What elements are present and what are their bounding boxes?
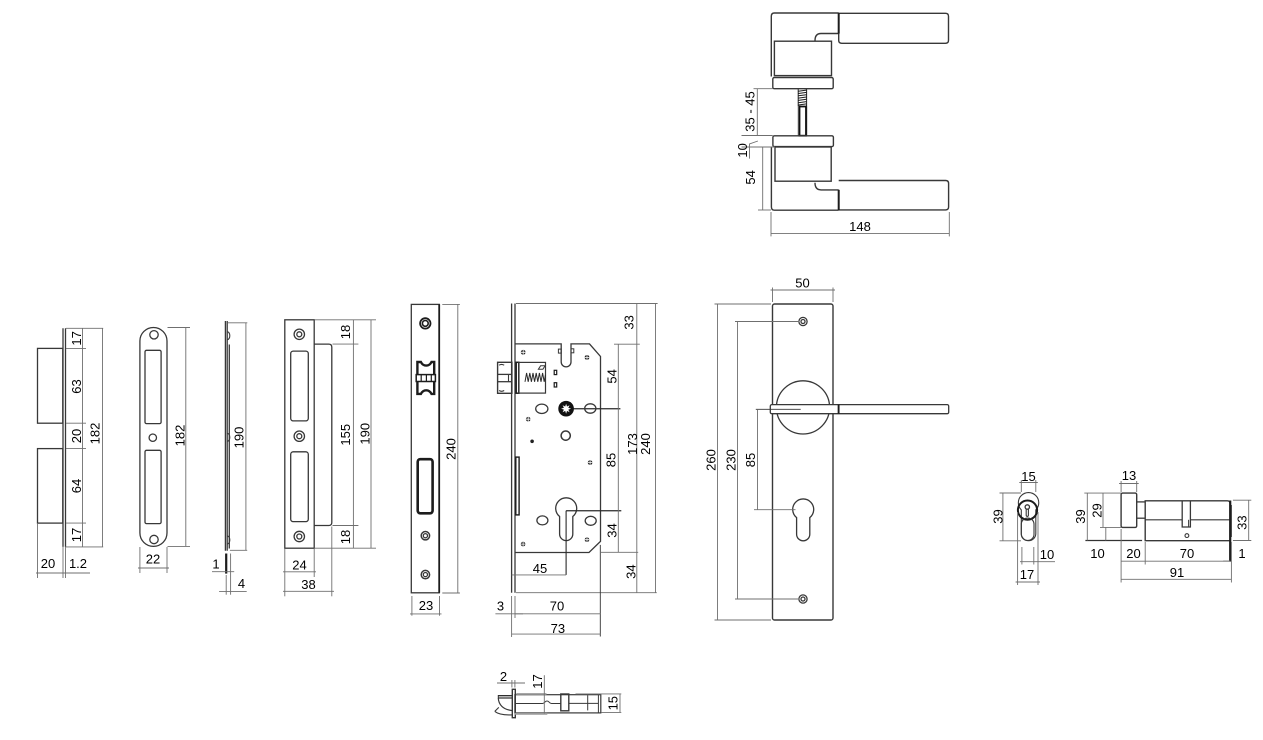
keyway slot: [1182, 501, 1190, 527]
svg-text:1: 1: [212, 557, 219, 572]
screw hole middle: [294, 431, 304, 441]
dim 22: [139, 547, 141, 573]
top rose plate: [773, 78, 833, 89]
bottom lever grip: [839, 181, 949, 210]
slot upper: [291, 351, 309, 421]
top rose square: [774, 41, 831, 75]
svg-text:10: 10: [1090, 546, 1104, 561]
spindle hint line: [756, 408, 801, 410]
svg-text:34: 34: [605, 523, 620, 537]
plug line: [1145, 519, 1182, 521]
cam tip: [1230, 505, 1232, 537]
svg-text:182: 182: [87, 423, 102, 445]
svg-text:230: 230: [724, 449, 739, 471]
dim 17: [1017, 512, 1019, 585]
PART8: handle pair side view: [735, 13, 949, 236]
bottom rose square: [775, 147, 831, 181]
svg-text:17: 17: [1020, 567, 1034, 582]
PART5: lock faceplate front: [410, 304, 460, 615]
dim 24: [284, 549, 286, 596]
svg-text:73: 73: [551, 621, 565, 636]
lock case outline with top notch and chamfers: [515, 344, 601, 553]
follower block: [561, 694, 569, 711]
notch nub left: [558, 349, 561, 353]
dim 50: [772, 288, 774, 303]
svg-text:45: 45: [533, 561, 547, 576]
svg-text:182: 182: [173, 425, 188, 447]
spindle rod: [797, 106, 799, 135]
dim 190: [228, 322, 248, 324]
dim line 54/85/34: [617, 344, 619, 552]
PART9: cylinder face view: [991, 469, 1056, 585]
screw hole bottom: [799, 595, 807, 603]
dim line 17/63/20/64/17: [82, 328, 84, 547]
latch band dividers: [420, 375, 422, 382]
screw hole top: [420, 318, 430, 328]
ext 39/29 top: [1084, 492, 1121, 494]
dim 39: [1000, 492, 1022, 494]
PART6: mortise lock body: [495, 304, 657, 638]
svg-text:148: 148: [849, 219, 871, 234]
small dot: [530, 440, 534, 444]
inner stem outline: [1021, 518, 1034, 540]
PART7: handle backplate: [704, 275, 949, 620]
latch collar: [516, 362, 519, 393]
PART10: cylinder side view: [1073, 468, 1251, 583]
handle lever bar: [770, 405, 948, 414]
svg-text:39: 39: [1073, 509, 1088, 523]
svg-text:240: 240: [444, 438, 459, 460]
svg-text:33: 33: [1235, 515, 1250, 529]
screw under keyway: [1185, 534, 1189, 538]
svg-text:35 - 45: 35 - 45: [743, 91, 758, 131]
screw top-left: [521, 350, 526, 355]
latch head top band: [498, 696, 512, 699]
dim line 20/70: [1121, 560, 1230, 562]
dim 15: [576, 693, 622, 695]
screw hole mid: [421, 532, 429, 540]
tab upper: [38, 348, 63, 423]
svg-text:22: 22: [146, 552, 160, 567]
dim line 240: [655, 304, 657, 593]
oval right of cylinder: [585, 516, 596, 525]
neck: [1137, 501, 1146, 503]
ext 260 bottom: [715, 619, 772, 621]
bottom joint line: [838, 190, 840, 210]
dim 4: [230, 554, 232, 595]
tab lower: [38, 449, 63, 523]
svg-text:54: 54: [743, 170, 758, 184]
cylinder centerline vertical: [565, 511, 567, 575]
10 leader: [750, 141, 758, 159]
svg-text:50: 50: [795, 275, 809, 290]
dim 3/70 line: [511, 596, 513, 637]
bottom dim 20 / 1.2: [37, 523, 39, 578]
backplate outline: [773, 304, 834, 620]
lock faceplate edge lines: [511, 304, 513, 593]
ext verticals bottom: [1120, 529, 1122, 583]
screw hole bottom: [294, 531, 304, 541]
svg-text:20: 20: [69, 429, 84, 443]
main plate: [285, 320, 314, 548]
svg-text:17: 17: [69, 331, 84, 345]
cylinder hole: [556, 498, 577, 541]
follower hub: [558, 401, 574, 417]
folded lip line: [228, 345, 230, 549]
screw top-right: [585, 355, 590, 360]
latch cutout: [417, 362, 434, 394]
dim line 54: [762, 147, 764, 210]
svg-text:17: 17: [69, 528, 84, 542]
dim line 18/155/18: [352, 320, 354, 548]
screw bottom-right: [585, 537, 590, 542]
end cap: [597, 695, 599, 713]
svg-text:4: 4: [238, 576, 245, 591]
handle rose circle: [776, 381, 829, 434]
dim line 39: [1086, 493, 1088, 540]
plate stadium outline: [140, 328, 167, 547]
latch spring retainer: [538, 366, 545, 369]
svg-text:85: 85: [604, 453, 619, 467]
dimple bottom: [228, 536, 230, 544]
dimple middle: [228, 433, 230, 441]
svg-text:15: 15: [606, 696, 621, 710]
dim 1: [1223, 560, 1230, 562]
ext 33 bottom: [1233, 540, 1251, 542]
svg-text:2: 2: [500, 669, 507, 684]
keyway: [1025, 505, 1029, 509]
PART2: flat strike plate: [138, 328, 190, 574]
svg-text:23: 23: [419, 598, 433, 613]
ext 33 top: [1233, 499, 1251, 501]
PART11: latch bolt side view: [495, 669, 622, 718]
svg-text:70: 70: [550, 599, 564, 614]
dim line 182: [102, 328, 104, 547]
PART1: side strike plate: [36, 328, 103, 578]
plate bar (edge view): [62, 328, 64, 547]
middle hole: [149, 434, 156, 441]
dim 182: [168, 327, 191, 329]
dim 2: [511, 680, 513, 688]
svg-text:155: 155: [338, 424, 353, 446]
svg-text:64: 64: [69, 479, 84, 493]
bottom screw hole: [150, 535, 158, 543]
svg-text:17: 17: [530, 674, 545, 688]
circle below follower: [561, 431, 570, 440]
screw bottom-left: [521, 542, 526, 547]
outer silhouette: [1018, 493, 1038, 541]
svg-text:85: 85: [743, 453, 758, 467]
svg-text:10: 10: [735, 143, 750, 157]
latch body in case: [519, 362, 546, 393]
dim 17: [516, 693, 546, 695]
ext 10 bottom / 54 top: [742, 146, 775, 148]
svg-text:70: 70: [1180, 546, 1194, 561]
PART4: lipped strike plate: [283, 320, 376, 597]
top screw hole: [150, 331, 158, 339]
dim 15: [1020, 480, 1022, 492]
dim 240: [442, 303, 460, 305]
thumbturn knob: [1121, 493, 1137, 527]
dim 73 line: [512, 633, 601, 635]
dim 45: [512, 574, 566, 576]
extension ticks: [66, 327, 103, 329]
ext 54 bottom: [758, 209, 771, 211]
svg-text:20: 20: [41, 556, 55, 571]
svg-text:91: 91: [1170, 565, 1184, 580]
svg-text:20: 20: [1126, 546, 1140, 561]
shaft mid line with notch: [515, 701, 561, 704]
small slot B: [554, 383, 557, 387]
svg-text:18: 18: [338, 530, 353, 544]
tail mid line: [569, 702, 599, 704]
latch head beak: [495, 707, 513, 715]
ext 85 bottom: [754, 509, 796, 511]
ext 260 top: [715, 303, 772, 305]
screw hole top: [294, 329, 304, 339]
cylinder centerline horizontal: [566, 510, 621, 512]
svg-text:54: 54: [605, 369, 620, 383]
circle right of follower: [585, 404, 596, 413]
case bottom extension: [601, 551, 638, 553]
ext 230 bottom: [735, 598, 800, 600]
screw hole top: [799, 317, 807, 325]
dim line 29: [1102, 493, 1104, 527]
flange: [512, 689, 515, 717]
top extension line: [516, 303, 658, 305]
dim 13: [1120, 481, 1122, 492]
dim line 35-45: [756, 89, 758, 136]
ext 230 top: [735, 321, 800, 323]
latch spring: [525, 373, 545, 382]
cylinder body: [1145, 501, 1230, 541]
tail cross: [587, 695, 589, 710]
dim line 91: [1121, 578, 1231, 580]
plate front line: [226, 321, 228, 551]
dim line 10: [1105, 527, 1107, 540]
svg-text:34: 34: [624, 564, 639, 578]
svg-text:63: 63: [69, 379, 84, 393]
lever joint line: [838, 405, 840, 414]
lip: [314, 344, 332, 525]
screw below oval: [526, 417, 531, 422]
svg-text:39: 39: [991, 509, 1006, 523]
upper slot: [145, 350, 161, 423]
follower line: [566, 408, 620, 410]
case top extension: [614, 343, 640, 345]
svg-text:260: 260: [704, 449, 719, 471]
faceplate outline: [411, 304, 439, 592]
svg-text:29: 29: [1090, 503, 1105, 517]
cam edge dark: [1229, 501, 1231, 562]
dim 38: [331, 527, 333, 597]
dim 23: [411, 596, 413, 616]
bolt shaft: [515, 695, 601, 713]
screw mid-right: [588, 460, 593, 465]
dim line 260: [717, 304, 719, 620]
svg-text:190: 190: [358, 423, 373, 445]
svg-text:190: 190: [232, 427, 247, 449]
top lever neck outline: [771, 13, 838, 77]
deadbolt edge: [516, 457, 519, 515]
svg-text:15: 15: [1021, 469, 1035, 484]
svg-text:3: 3: [497, 599, 504, 614]
dim line 230: [737, 322, 739, 600]
svg-text:38: 38: [301, 577, 315, 592]
extension ticks right: [315, 319, 376, 321]
dim 1: [225, 554, 227, 574]
plate back line: [224, 321, 226, 551]
slot lower: [291, 452, 309, 522]
oval left of follower: [536, 404, 548, 413]
PART3: thin plate side view: [212, 321, 247, 595]
top lever grip: [839, 13, 949, 43]
latch mid band: [416, 375, 435, 382]
svg-text:10: 10: [1040, 547, 1054, 562]
keyhole: [793, 499, 814, 541]
svg-text:13: 13: [1122, 468, 1136, 483]
ext bottom long: [1085, 540, 1142, 542]
spindle spring: [798, 89, 806, 106]
svg-text:18: 18: [338, 325, 353, 339]
dim line 85: [757, 409, 759, 509]
svg-text:1.2: 1.2: [69, 556, 87, 571]
screw hole bottom: [421, 570, 429, 578]
svg-text:24: 24: [292, 557, 306, 572]
deadbolt slot: [418, 459, 433, 513]
dim line 33: [1248, 500, 1250, 540]
bottom lever neck outline: [771, 147, 838, 210]
oval left of cylinder: [537, 516, 548, 525]
svg-text:33: 33: [622, 315, 637, 329]
ext 35-45 bottom / 10 top: [742, 135, 773, 137]
svg-text:1: 1: [1238, 546, 1245, 561]
ext 35-45 top: [754, 88, 773, 90]
ext 29/10 knob bottom: [1100, 526, 1121, 528]
top joint line: [838, 13, 840, 33]
bottom extension line: [516, 592, 657, 594]
small slot A: [554, 370, 557, 374]
faceplate right edge dark: [438, 304, 440, 592]
dim 148: [770, 212, 772, 236]
latch head: [498, 362, 512, 393]
dim 10: [1021, 547, 1023, 565]
dimple top: [228, 332, 230, 340]
plug ring bold: [1018, 501, 1037, 520]
lower slot: [145, 450, 161, 523]
dim line 33/173/34: [636, 304, 638, 593]
notch nub right: [571, 349, 574, 353]
latch head bevel arc: [498, 698, 512, 710]
svg-text:240: 240: [638, 433, 653, 455]
dim line 190: [370, 320, 372, 548]
bottom rose plate: [773, 136, 834, 147]
